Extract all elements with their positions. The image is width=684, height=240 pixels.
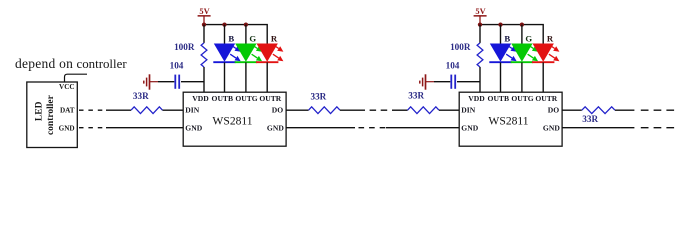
wire R cathode to OUTR bbox=[266, 62, 268, 92]
svg-text:depend oncontroller: depend oncontroller bbox=[15, 56, 127, 71]
svg-text:R: R bbox=[271, 34, 278, 44]
svg-text:5V: 5V bbox=[199, 7, 209, 16]
wire G cathode to OUTG bbox=[521, 62, 523, 92]
svg-text:33R: 33R bbox=[310, 91, 326, 101]
wire controller GND dashed bbox=[79, 127, 106, 129]
power port 5V (unit 2) bbox=[474, 7, 487, 24]
resistor 100R bbox=[450, 25, 483, 93]
resistor 33R (U2 DO) bbox=[582, 107, 615, 124]
svg-text:104: 104 bbox=[446, 60, 460, 70]
wire DAT solid bbox=[106, 109, 131, 111]
LED controller box bbox=[27, 82, 78, 148]
resistor 100R bbox=[174, 25, 207, 93]
svg-text:DIN: DIN bbox=[185, 105, 199, 114]
wire capacitor to VDD node bbox=[457, 81, 480, 83]
wire G cathode to OUTG bbox=[245, 62, 247, 92]
svg-text:G: G bbox=[249, 34, 256, 44]
svg-text:GND: GND bbox=[185, 123, 202, 132]
svg-text:WS2811: WS2811 bbox=[488, 115, 528, 128]
svg-text:DIN: DIN bbox=[461, 105, 475, 114]
wire 5V bus bbox=[480, 25, 543, 44]
callout line VCC bbox=[65, 74, 88, 82]
junction dot VDD branch bbox=[478, 22, 482, 26]
svg-text:DAT: DAT bbox=[60, 106, 75, 114]
wire GND2 solid bbox=[562, 127, 634, 129]
wire DO U1 bbox=[286, 109, 308, 111]
svg-text:OUTB: OUTB bbox=[212, 94, 234, 103]
wire 5V bus bbox=[204, 25, 267, 44]
wire GND U1-U2 solid bbox=[286, 127, 355, 129]
svg-text:33R: 33R bbox=[582, 114, 598, 124]
wire B anode bbox=[500, 25, 502, 44]
junction dot B branch bbox=[498, 22, 502, 26]
junction dot VDD branch bbox=[202, 22, 206, 26]
wire ground to capacitor bbox=[434, 81, 450, 83]
junction dot B branch bbox=[222, 22, 226, 26]
resistor 33R (to U2 DIN) bbox=[408, 91, 440, 114]
svg-text:OUTB: OUTB bbox=[488, 94, 510, 103]
svg-text:GND: GND bbox=[461, 123, 478, 132]
svg-text:LED: LED bbox=[35, 101, 45, 121]
wire data dashed bbox=[359, 109, 392, 111]
wire G anode bbox=[521, 25, 523, 44]
svg-text:R: R bbox=[547, 34, 554, 44]
wire R cathode to OUTR bbox=[542, 62, 544, 92]
svg-text:G: G bbox=[525, 34, 532, 44]
wire to DIN U2 bbox=[439, 109, 459, 111]
capacitor 104 bbox=[170, 60, 184, 89]
svg-text:5V: 5V bbox=[475, 7, 485, 16]
wire capacitor to VDD node bbox=[181, 81, 204, 83]
IC U2 WS2811 bbox=[459, 92, 562, 146]
svg-text:GND: GND bbox=[59, 124, 75, 132]
svg-text:100R: 100R bbox=[450, 42, 471, 52]
svg-text:OUTR: OUTR bbox=[535, 94, 557, 103]
wire GND U1-U2 solid 2 bbox=[386, 127, 459, 129]
svg-text:VCC: VCC bbox=[59, 83, 75, 91]
svg-text:controller: controller bbox=[46, 94, 56, 135]
wire data solid bbox=[340, 109, 359, 111]
LED G1 bbox=[235, 44, 262, 63]
ground symbol bbox=[420, 74, 434, 89]
LED R1 bbox=[256, 44, 283, 63]
wire controller GND solid bbox=[106, 127, 183, 129]
junction dot G branch bbox=[520, 22, 524, 26]
wire GND U1-U2 dashed bbox=[359, 127, 387, 129]
resistor 33R (U1 DO) bbox=[309, 91, 341, 113]
svg-text:DO: DO bbox=[548, 105, 559, 114]
svg-text:OUTG: OUTG bbox=[511, 94, 533, 103]
resistor 33R (controller to U1) bbox=[131, 91, 163, 114]
ground symbol bbox=[144, 74, 158, 89]
power port 5V (unit 1) bbox=[198, 7, 211, 24]
LED R2 bbox=[532, 44, 559, 63]
svg-text:WS2811: WS2811 bbox=[212, 115, 252, 128]
wire B cathode to OUTB bbox=[500, 62, 502, 92]
wire DO2 solid bbox=[615, 109, 634, 111]
wire B cathode to OUTB bbox=[224, 62, 226, 92]
svg-text:GND: GND bbox=[267, 123, 284, 132]
svg-text:104: 104 bbox=[170, 60, 184, 70]
svg-text:OUTR: OUTR bbox=[259, 94, 281, 103]
wire B anode bbox=[224, 25, 226, 44]
svg-text:OUTG: OUTG bbox=[235, 94, 257, 103]
svg-text:DO: DO bbox=[272, 105, 283, 114]
svg-text:33R: 33R bbox=[408, 91, 424, 101]
wire DAT dashed bbox=[79, 109, 106, 111]
junction dot G branch bbox=[244, 22, 248, 26]
IC U1 WS2811 bbox=[183, 92, 286, 146]
wire G anode bbox=[245, 25, 247, 44]
svg-text:VDD: VDD bbox=[468, 94, 485, 103]
svg-text:B: B bbox=[504, 34, 510, 44]
capacitor 104 bbox=[446, 60, 460, 89]
svg-text:VDD: VDD bbox=[192, 94, 209, 103]
wire ground to capacitor bbox=[158, 81, 174, 83]
wire GND2 dashes bbox=[641, 127, 674, 129]
svg-text:GND: GND bbox=[543, 123, 560, 132]
svg-text:100R: 100R bbox=[174, 42, 195, 52]
LED B2 bbox=[489, 44, 516, 63]
LED B1 bbox=[213, 44, 240, 63]
LED G2 bbox=[511, 44, 538, 63]
wire 33R to DIN U1 bbox=[163, 109, 184, 111]
wire DO2 dashes bbox=[641, 109, 674, 111]
wire data solid 2 bbox=[392, 109, 408, 111]
svg-text:33R: 33R bbox=[133, 91, 149, 101]
wire DO U2 bbox=[562, 109, 582, 111]
svg-text:B: B bbox=[228, 34, 234, 44]
